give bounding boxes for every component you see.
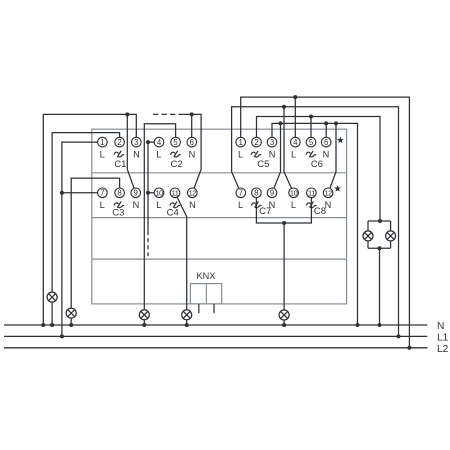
terminal 12 C8 xyxy=(323,188,333,198)
terminal 2 C5 xyxy=(252,137,262,147)
lamp C1 load xyxy=(47,292,57,302)
svg-text:5: 5 xyxy=(173,138,178,147)
wire C4 output: terminal 11 diagonal down to lamp, lamp to N xyxy=(177,197,187,325)
svg-text:L: L xyxy=(238,149,243,159)
svg-text:C6: C6 xyxy=(311,159,323,170)
terminal 10 C4 xyxy=(154,188,164,198)
svg-text:N: N xyxy=(437,321,444,332)
svg-text:1: 1 xyxy=(239,138,243,147)
wire L1 feed left: terminal 1, terminal 7, down to L1 xyxy=(62,142,98,336)
wire C7/C8 outputs bracket to lamp, lamp to N xyxy=(256,198,311,325)
junction lamp pair top xyxy=(378,219,382,223)
terminal 1 C5 xyxy=(236,137,246,147)
wire N dashed continuation xyxy=(153,113,184,115)
svg-text:L: L xyxy=(238,200,243,210)
wire branch to terminal 9 right (diagonal) xyxy=(274,123,281,188)
terminal 10 C8 xyxy=(289,188,299,198)
star terminal 6 right xyxy=(337,137,344,144)
svg-text:12: 12 xyxy=(189,189,197,198)
wire lamp pair top bracket xyxy=(368,221,391,231)
wire N to C2 bank: terminal 6 and terminal 12 xyxy=(184,114,201,188)
svg-text:10: 10 xyxy=(155,189,163,198)
svg-text:2: 2 xyxy=(117,138,121,147)
wire drop into terminal 6 xyxy=(191,114,193,137)
junction L1 bus 1 xyxy=(60,334,64,338)
svg-text:9: 9 xyxy=(270,189,274,198)
svg-text:C1: C1 xyxy=(114,159,126,170)
divider below terminals xyxy=(92,217,347,219)
wire C1 output: terminal 2 to lamp, lamp to N xyxy=(52,133,120,325)
junction L1 line / terminal 10 right xyxy=(282,105,286,109)
device outline box xyxy=(92,129,347,304)
svg-text:5: 5 xyxy=(309,138,314,147)
junction L1 bus 2 xyxy=(397,334,401,338)
wire C6 output: terminal 2, terminal 5, across to lamp pair xyxy=(257,117,381,222)
svg-text:N: N xyxy=(269,149,276,159)
svg-text:11: 11 xyxy=(172,189,179,198)
svg-text:C7: C7 xyxy=(259,206,271,217)
symbol ~ terminal 2 right xyxy=(251,151,261,157)
terminal 12 C4 xyxy=(188,188,198,198)
terminal 1 C1 xyxy=(98,137,108,147)
junction lamp pair bottom xyxy=(378,246,382,250)
junction N bus 8 xyxy=(378,323,382,327)
lamp C3 load xyxy=(66,308,76,318)
svg-text:L: L xyxy=(291,200,296,210)
svg-text:6: 6 xyxy=(190,138,194,147)
svg-text:11: 11 xyxy=(308,189,315,198)
junction terminal 4 xyxy=(146,140,150,144)
junction L1 / terminal 7 branch xyxy=(60,191,64,195)
wire lamp pair bottom bracket to N xyxy=(368,241,391,325)
svg-text:1: 1 xyxy=(100,138,104,147)
svg-text:9: 9 xyxy=(134,189,138,198)
wire C2 output: terminal 5 up, across, down to lamp, lamp to N xyxy=(144,124,175,325)
svg-text:3: 3 xyxy=(270,138,274,147)
terminal 7 C3 xyxy=(98,188,108,198)
wire L link terminals 4 and 10 xyxy=(148,142,154,231)
wire branch to terminal 9 (diagonal) xyxy=(127,114,134,188)
junction N line / terminal 6 right xyxy=(324,121,328,125)
junction N line / terminal 6 branch xyxy=(190,112,194,116)
junction N line / terminal 12 right xyxy=(334,121,338,125)
junction N bus 4 xyxy=(142,323,146,327)
symbol ~ terminal 8 right xyxy=(251,202,261,208)
svg-text:L: L xyxy=(100,149,105,159)
divider lower body xyxy=(92,258,347,260)
terminal 3 C5 xyxy=(267,137,277,147)
terminal 5 C2 xyxy=(171,137,181,147)
wire L1 feed right: terminal 7, terminal 10, down to L1 xyxy=(232,107,399,337)
KNX pin - xyxy=(213,304,215,313)
svg-text:N: N xyxy=(189,200,196,210)
junction terminal 10 xyxy=(146,191,150,195)
svg-text:4: 4 xyxy=(293,138,298,147)
svg-text:8: 8 xyxy=(117,189,121,198)
wire branch to terminal 6 right xyxy=(325,123,327,137)
junction L2 line / terminal 4 right xyxy=(293,95,297,99)
wire L2 feed right: terminal 1, terminal 4, down to L2 xyxy=(241,97,410,348)
terminal 8 C3 xyxy=(115,188,125,198)
symbol ~ terminal 5 right xyxy=(306,151,316,157)
svg-text:L: L xyxy=(100,200,105,210)
symbol ~ terminal 8 xyxy=(114,202,124,208)
wire branch to terminal 12 right (diagonal) xyxy=(330,123,336,188)
KNX connector box xyxy=(190,284,221,304)
terminal 2 C1 xyxy=(115,137,125,147)
svg-text:C3: C3 xyxy=(112,208,124,219)
svg-text:3: 3 xyxy=(134,138,138,147)
terminal 8 C7 xyxy=(252,188,262,198)
svg-text:KNX: KNX xyxy=(197,271,216,281)
svg-text:L: L xyxy=(156,149,161,159)
terminal 4 C6 xyxy=(291,137,301,147)
bus line L1 xyxy=(4,335,427,337)
lamp C4 load xyxy=(182,310,192,320)
lamp C2 load xyxy=(139,310,149,320)
divider row1/row2 xyxy=(92,172,347,174)
wire internal dashed continuation xyxy=(147,231,149,259)
svg-text:C5: C5 xyxy=(257,159,269,170)
junction L2 bus xyxy=(407,346,411,350)
svg-text:8: 8 xyxy=(254,189,258,198)
lamp C7/C8 load xyxy=(279,310,289,320)
wire C3 output: terminal 8 to lamp, lamp to N xyxy=(71,178,119,325)
junction N bus 5 xyxy=(185,323,189,327)
svg-text:C8: C8 xyxy=(314,206,326,217)
junction N line / terminal 9 right xyxy=(279,121,283,125)
svg-text:L1: L1 xyxy=(437,333,449,344)
junction N bus 1 xyxy=(41,323,45,327)
terminal 3 C1 xyxy=(132,137,142,147)
wire N feed right: terminal 3, 6, 9, 12, down to N xyxy=(272,123,358,325)
terminal 9 C7 xyxy=(267,188,277,198)
junction N bus 6 xyxy=(282,323,286,327)
svg-text:2: 2 xyxy=(254,138,258,147)
junction N bus 7 xyxy=(356,323,360,327)
bus line N xyxy=(4,324,427,326)
svg-text:6: 6 xyxy=(324,138,328,147)
svg-text:12: 12 xyxy=(324,189,332,198)
junction C7/C8 bracket xyxy=(282,221,286,225)
svg-text:L: L xyxy=(156,200,161,210)
svg-text:C2: C2 xyxy=(171,159,183,170)
lamp C5/C6 load a xyxy=(363,231,373,241)
svg-text:L: L xyxy=(291,149,296,159)
wire N feed left: N bus up, across, into terminal 3 xyxy=(43,114,136,325)
junction N line / terminal 9 branch xyxy=(125,112,129,116)
svg-text:N: N xyxy=(189,149,196,159)
terminal 6 C6 xyxy=(321,137,331,147)
terminal 5 C6 xyxy=(306,137,316,147)
svg-text:N: N xyxy=(323,149,330,159)
junction C6 line / terminal 5 right xyxy=(309,115,313,119)
symbol ~ terminal 5 xyxy=(170,151,180,157)
symbol ~ terminal 11 right xyxy=(306,202,316,208)
bus line L2 xyxy=(4,347,427,349)
svg-text:7: 7 xyxy=(239,189,243,198)
terminal 11 C8 xyxy=(307,188,317,198)
svg-text:C4: C4 xyxy=(167,208,179,219)
terminal 11 C4 xyxy=(170,188,180,198)
terminal 6 C2 xyxy=(187,137,197,147)
star terminal 12 right xyxy=(334,185,341,192)
svg-text:N: N xyxy=(133,149,140,159)
svg-text:7: 7 xyxy=(100,189,104,198)
terminal 4 C2 xyxy=(154,137,164,147)
symbol ~ terminal 2 xyxy=(114,151,124,157)
svg-text:4: 4 xyxy=(157,138,162,147)
terminal 7 C7 xyxy=(236,188,246,198)
KNX pin + xyxy=(198,304,200,313)
svg-text:N: N xyxy=(133,200,140,210)
lamp C5/C6 load b xyxy=(386,231,396,241)
svg-text:L2: L2 xyxy=(437,344,449,355)
symbol ~ terminal 11 xyxy=(170,202,180,208)
terminal 9 C3 xyxy=(131,188,141,198)
svg-text:10: 10 xyxy=(290,189,298,198)
junction N bus 3 xyxy=(69,323,73,327)
junction N bus 2 xyxy=(50,323,54,327)
